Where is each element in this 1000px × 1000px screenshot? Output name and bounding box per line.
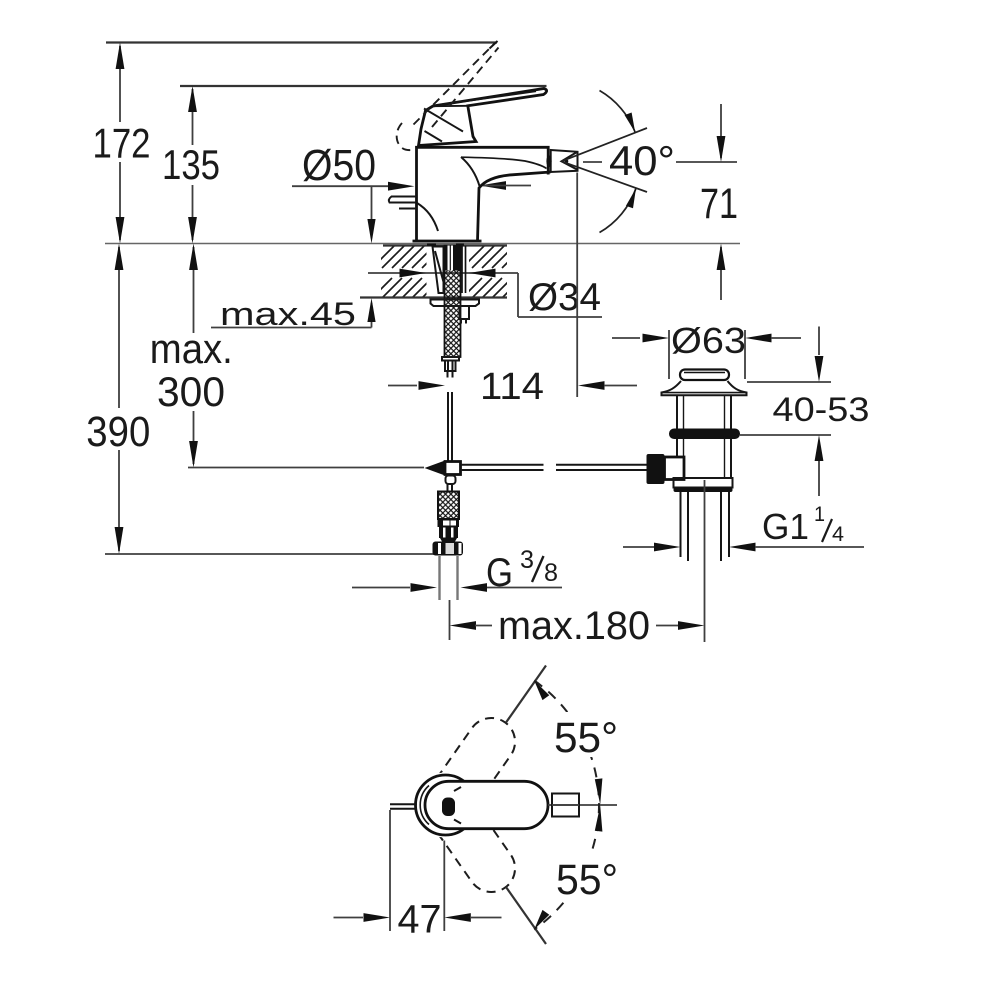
rod left in top view [390,803,417,805]
55 upper line [506,666,546,723]
handle knuckle and lever [419,89,547,146]
dim line 172 [88,43,154,244]
svg-text:4: 4 [832,523,844,546]
pop-up rod [448,392,452,463]
pop rod ball joint [425,461,446,476]
drain gasket [669,429,740,440]
svg-text:40°: 40° [609,137,675,184]
svg-text:47: 47 [398,898,442,942]
55 lower line [506,887,546,944]
svg-text:390: 390 [86,408,150,456]
extension line top 172 [106,41,497,43]
dim line max300 [146,244,236,468]
rod to hose [448,484,453,492]
svg-text:Ø34: Ø34 [528,276,601,319]
drain: dim Ø63 [612,320,801,379]
spout aerator cone [562,152,578,170]
dashed handle tip cap [490,41,498,49]
spout inner lines [461,157,547,168]
arc arrowheads [534,681,549,701]
dash marks on capsule [454,787,461,791]
faucet center line lower [449,600,451,640]
faucet spout end cap [551,150,578,172]
svg-text:1: 1 [814,503,825,526]
svg-text:8: 8 [544,559,558,587]
handle facet lines [424,91,536,141]
lower nut stack [442,357,459,361]
svg-text:114: 114 [480,366,544,408]
faucet base plate [413,240,482,243]
lever top view capsule [425,781,548,828]
dim G3/8 [352,546,562,595]
dim 71 [700,104,738,300]
drain nut [674,478,733,488]
shank threaded rod upper [445,246,461,358]
extension line 135 [180,85,547,87]
counter hatch slab [360,246,524,299]
svg-text:Ø50: Ø50 [302,141,376,190]
svg-text:G: G [486,551,513,595]
dim Ø34 [368,269,602,319]
faucet shank clamp wedge [433,247,444,294]
horizontal pop lever [461,465,647,470]
faucet body outline [417,147,551,241]
pop-up rod upper stub [448,371,453,378]
dim Ø50 [292,141,531,191]
svg-text:3: 3 [520,546,534,574]
hose tails [438,556,440,600]
dim max.45 [211,186,376,332]
dim max.180 [450,604,705,648]
drain pull rod center line [704,480,706,642]
40 degree angle lines [562,128,648,161]
dim line 390 [83,244,155,555]
dim G1 1/4 [623,503,864,551]
svg-text:G1: G1 [762,506,809,547]
svg-text:Ø63: Ø63 [671,320,746,361]
dashed handle raised position [397,44,499,150]
40 degree arcs with arrows [600,91,636,133]
spout tip square [552,794,579,817]
55 deg labels [548,712,624,757]
pop rod guide right of shank [460,306,470,319]
spout joint ellipse [546,155,551,167]
base circle inner arc [420,786,429,825]
shank top seal [427,244,436,246]
svg-text:40-53: 40-53 [773,391,870,429]
mounting flange [431,300,480,307]
base circle outer [416,775,476,835]
drain body upper [677,396,731,429]
drain escutcheon flare [662,381,747,395]
dashed lever position down 55 [414,773,524,902]
drain body lower [677,439,731,478]
axis line [548,804,617,806]
svg-text:55°: 55° [556,856,618,904]
hose end nut [433,542,464,556]
svg-text:55°: 55° [554,714,618,762]
dim 114 [388,173,637,409]
svg-text:max.180: max.180 [498,604,650,648]
hose collar band [438,519,460,527]
extension line bottom 390 [105,553,447,555]
svg-text:max.45: max.45 [220,296,356,332]
extension line max300 bottom [188,467,424,469]
side nub [389,197,417,203]
40 degree label [583,161,602,163]
drain tailpipe [681,492,730,561]
drain clamp block [647,454,665,484]
hose striped section [439,527,458,542]
dim 47 [334,810,502,942]
dim 40-53 [740,327,870,497]
dim line 135 [156,86,232,244]
svg-text:71: 71 [700,180,738,228]
svg-text:172: 172 [93,120,151,167]
pop rod tube in hole [461,246,463,293]
drain plug cap [680,370,729,381]
dashed lever position up 55 [414,709,524,902]
svg-text:135: 135 [162,141,220,188]
pivot pill [442,798,455,817]
hose threaded top [438,492,459,520]
svg-text:300: 300 [157,368,225,415]
counter reference line [105,243,740,245]
swing arc dashed [534,681,599,930]
ball joint lower knob [446,476,456,485]
